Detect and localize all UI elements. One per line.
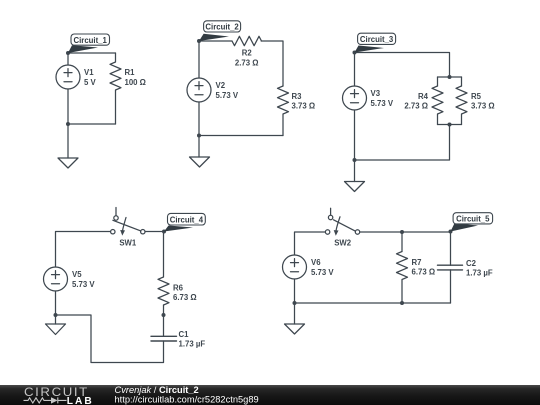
- node A2: [197, 39, 201, 43]
- svg-text:Circuit_2: Circuit_2: [205, 23, 239, 32]
- ground C3: [345, 182, 365, 192]
- label callout Circuit_5: [451, 213, 493, 232]
- ground C2: [190, 157, 210, 167]
- resistor R2: [232, 36, 261, 45]
- wire ground stub C4: [55, 315, 57, 324]
- wire R6 bottom to node: [163, 305, 165, 315]
- node A4: [162, 230, 166, 234]
- label callout Circuit_1: [68, 34, 110, 53]
- wire ground stub C5: [294, 303, 296, 324]
- svg-text:5.73 V: 5.73 V: [72, 280, 95, 289]
- resistor R3: [278, 86, 289, 136]
- svg-text:R6: R6: [173, 283, 184, 292]
- svg-text:V3: V3: [371, 89, 381, 98]
- wire bottom return C4: [56, 315, 164, 363]
- svg-text:2.73 Ω: 2.73 Ω: [235, 58, 259, 67]
- node junction R6-C1: [162, 313, 166, 317]
- wire switch right to rail C5: [360, 231, 451, 233]
- svg-text:Circuit_3: Circuit_3: [360, 35, 394, 44]
- svg-text:http://circuitlab.com/cr5282ct: http://circuitlab.com/cr5282ctn5g89: [115, 394, 259, 404]
- wire bottom rail C1: [68, 123, 116, 125]
- wire parallel bottom bar: [438, 124, 462, 126]
- svg-text:SW2: SW2: [334, 239, 352, 248]
- resistor R6: [158, 232, 169, 306]
- node junction C4 ground: [54, 313, 58, 317]
- wire V1 bottom: [67, 89, 69, 124]
- resistor R1: [110, 53, 121, 124]
- wire C2 branch top: [450, 232, 452, 265]
- svg-text:C2: C2: [466, 259, 477, 268]
- wire top rail C3: [355, 53, 450, 78]
- label callout Circuit_3: [355, 33, 396, 52]
- wire C1 top: [163, 315, 165, 336]
- logo diode triangle: [51, 397, 58, 403]
- wire C2 bottom: [450, 270, 452, 303]
- svg-text:6.73 Ω: 6.73 Ω: [412, 268, 436, 277]
- wire top rail C1: [68, 52, 116, 54]
- wire parallel to bottom rail: [355, 125, 450, 161]
- voltage source V1: [56, 65, 80, 89]
- svg-text:R4: R4: [418, 92, 429, 101]
- node A3: [353, 51, 357, 55]
- wire R7 branch top: [401, 232, 403, 252]
- svg-text:C1: C1: [179, 330, 190, 339]
- svg-text:R2: R2: [242, 48, 253, 57]
- svg-text:SW1: SW1: [119, 239, 137, 248]
- node junction C3 bottom rail: [353, 158, 357, 162]
- node junction C3 bottom parallel: [448, 123, 452, 127]
- wire V3 bottom: [354, 110, 356, 160]
- ground C4: [46, 324, 66, 335]
- voltage source V6: [283, 255, 307, 279]
- wire switch left lead C5: [295, 232, 326, 255]
- node junction C1 bottom: [66, 122, 70, 126]
- voltage source V3: [343, 86, 367, 110]
- wire V3 top: [354, 53, 356, 87]
- wire R2 to corner and down: [261, 41, 283, 86]
- wire R4 top stub: [437, 77, 439, 86]
- wire R5 top stub: [461, 77, 463, 86]
- resistor R5: [456, 86, 467, 125]
- logo schematic line: [24, 397, 67, 403]
- svg-text:5 V: 5 V: [84, 78, 97, 87]
- capacitor C2: [438, 265, 463, 270]
- node junction C5 ground: [293, 301, 297, 305]
- svg-text:1.73 µF: 1.73 µF: [179, 340, 206, 349]
- node junction R7 bottom: [400, 301, 404, 305]
- wire V2 bottom: [198, 102, 200, 136]
- svg-text:R7: R7: [412, 258, 422, 267]
- svg-text:3.73 Ω: 3.73 Ω: [292, 102, 316, 111]
- svg-text:R1: R1: [125, 68, 136, 77]
- voltage source V5: [44, 267, 68, 291]
- svg-text:Circuit_5: Circuit_5: [456, 215, 490, 224]
- footer bar: [0, 385, 540, 405]
- node junction C2 bottom: [197, 134, 201, 138]
- ground C5: [285, 324, 305, 334]
- svg-text:6.73 Ω: 6.73 Ω: [173, 293, 197, 302]
- svg-text:5.73 V: 5.73 V: [371, 99, 394, 108]
- node junction R7 top: [400, 230, 404, 234]
- switch SW1: [111, 208, 145, 236]
- wire V1 top: [67, 53, 69, 65]
- wire parallel top bar: [438, 76, 462, 78]
- svg-text:LAB: LAB: [67, 396, 94, 405]
- svg-text:V6: V6: [311, 258, 321, 267]
- svg-text:3.73 Ω: 3.73 Ω: [471, 102, 495, 111]
- svg-text:V2: V2: [216, 81, 226, 90]
- wire ground stub C1: [67, 124, 69, 158]
- node A5: [449, 230, 453, 234]
- resistor R7: [397, 252, 408, 304]
- node junction C3 top parallel: [448, 75, 452, 79]
- capacitor C1: [151, 336, 177, 341]
- svg-text:R3: R3: [292, 92, 303, 101]
- svg-text:2.73 Ω: 2.73 Ω: [404, 102, 428, 111]
- svg-text:1.73 µF: 1.73 µF: [466, 268, 493, 277]
- svg-text:V5: V5: [72, 270, 82, 279]
- wire V6 bottom: [294, 279, 296, 303]
- svg-text:R5: R5: [471, 92, 482, 101]
- wire switch left lead C4: [56, 232, 111, 268]
- svg-text:V1: V1: [84, 68, 94, 77]
- label callout Circuit_2: [199, 21, 241, 41]
- wire bottom rail C2: [199, 135, 283, 137]
- svg-text:Circuit_1: Circuit_1: [74, 36, 108, 45]
- voltage source V2: [187, 78, 211, 102]
- svg-text:5.73 V: 5.73 V: [216, 91, 239, 100]
- switch SW2: [325, 208, 359, 235]
- resistor R4: [432, 86, 443, 125]
- wire ground stub C3: [354, 160, 356, 182]
- wire top-left to R2: [199, 40, 232, 42]
- wire V5 bottom: [55, 291, 57, 315]
- wire V2 top: [198, 41, 200, 78]
- wire bottom rail C5: [295, 302, 451, 304]
- node A1: [66, 51, 70, 55]
- svg-text:Circuit_4: Circuit_4: [170, 215, 204, 224]
- ground C1: [58, 158, 78, 168]
- label callout Circuit_4: [164, 213, 205, 231]
- svg-text:5.73 V: 5.73 V: [311, 268, 334, 277]
- wire ground stub C2: [198, 136, 200, 158]
- wire switch right to node C4: [145, 231, 164, 233]
- svg-text:100 Ω: 100 Ω: [125, 78, 146, 87]
